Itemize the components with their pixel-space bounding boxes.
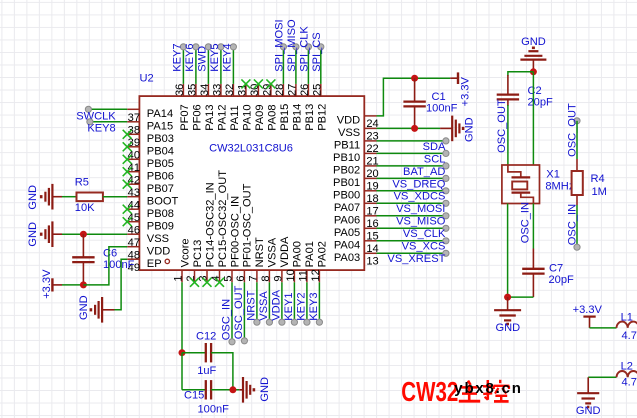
value 100nF C1	[426, 103, 458, 115]
svg-text:PA07: PA07	[334, 202, 360, 214]
label GND above C2	[521, 36, 546, 48]
svg-text:8: 8	[260, 275, 272, 281]
pin 41 PB05	[127, 158, 174, 174]
net label OSC_IN pin 5	[220, 299, 232, 340]
no-connect pin 40	[123, 142, 132, 151]
svg-text:PC15-OSC32_OUT: PC15-OSC32_OUT	[217, 170, 229, 268]
wire OSC_OUT pin 6	[241, 282, 247, 344]
pin 45 PB08	[127, 208, 174, 224]
svg-text:13: 13	[366, 256, 378, 268]
wire C15 right	[211, 389, 239, 391]
label +3.3V left	[41, 269, 53, 299]
svg-text:PB03: PB03	[147, 133, 174, 145]
pin 28 PB15	[274, 84, 291, 131]
junction VSS C6	[80, 231, 87, 238]
wire pin 23 VSS to ground	[377, 127, 441, 129]
wire +3.3V to pin 48 VDD	[83, 247, 127, 285]
net label SWCLK	[76, 110, 116, 122]
svg-text:11: 11	[298, 270, 310, 282]
wire VS_CLK	[377, 225, 450, 231]
svg-text:OSC_OUT: OSC_OUT	[233, 285, 245, 339]
svg-text:GND: GND	[576, 405, 601, 417]
svg-text:35: 35	[186, 84, 198, 96]
svg-text:100nF: 100nF	[426, 103, 458, 115]
svg-text:PB02: PB02	[333, 165, 360, 177]
svg-text:PB07: PB07	[147, 183, 174, 195]
svg-text:PA13: PA13	[204, 104, 216, 130]
wire C2 to crystal	[507, 99, 509, 165]
net label OSC_IN crystal	[520, 202, 532, 243]
ground GND at R5	[41, 184, 62, 210]
wire R4 to OSC_IN	[576, 195, 578, 247]
capacitor C1	[403, 78, 425, 128]
svg-text:R5: R5	[75, 177, 89, 189]
wire KEY2	[304, 282, 310, 325]
value 100nF C15	[198, 404, 230, 416]
no-connect pin 30	[254, 79, 263, 88]
value label CW32L031C8U6	[209, 142, 293, 154]
svg-text:PA08: PA08	[267, 104, 279, 130]
net label OSC_OUT R4	[566, 103, 578, 157]
wire VS_MISO	[377, 213, 450, 219]
svg-text:34: 34	[199, 84, 211, 96]
svg-text:VSS: VSS	[147, 233, 169, 245]
svg-text:GND: GND	[27, 185, 39, 210]
svg-text:PB10: PB10	[333, 152, 360, 164]
pin 27 PB14	[286, 84, 303, 131]
pin 11 PA01	[298, 241, 317, 282]
svg-text:U2: U2	[140, 73, 154, 85]
designator R5	[75, 177, 89, 189]
svg-text:VDD: VDD	[337, 115, 360, 127]
designator L1	[621, 311, 633, 323]
svg-text:PA11: PA11	[229, 105, 241, 131]
svg-text:NRST: NRST	[254, 237, 266, 267]
ground GND below C7	[494, 297, 521, 324]
svg-text:28: 28	[274, 84, 286, 96]
svg-text:KEY6: KEY6	[184, 43, 196, 71]
wire SCL	[377, 150, 450, 156]
pin 2 PC13	[185, 240, 204, 283]
ground GND above C2	[520, 48, 546, 72]
svg-text:BAT_AD: BAT_AD	[403, 166, 445, 178]
svg-text:PF01-OSC_OUT: PF01-OSC_OUT	[242, 183, 254, 267]
pin 39 PB03	[127, 133, 174, 149]
svg-text:VS_XREST: VS_XREST	[387, 253, 445, 265]
pin 21 PB10	[333, 152, 379, 167]
svg-text:PB09: PB09	[147, 221, 174, 233]
svg-text:VS_MOSI: VS_MOSI	[396, 203, 445, 215]
pin 10 PA00	[285, 241, 304, 282]
svg-text:10K: 10K	[75, 202, 95, 214]
pin 25 PB12	[311, 84, 328, 131]
net label KEY8	[87, 123, 115, 135]
wire VS_XCS	[377, 238, 450, 244]
designator U2	[140, 73, 154, 85]
svg-text:6: 6	[235, 275, 247, 281]
pin 13 PA03	[334, 252, 379, 267]
crystal X1	[502, 165, 540, 204]
net label KEY7	[172, 43, 184, 71]
junction Vcore C12	[179, 349, 186, 356]
wire VS_MOSI	[377, 200, 450, 206]
wire BAT_AD	[377, 163, 450, 169]
svg-text:SPI_MOSI: SPI_MOSI	[274, 19, 286, 71]
label GND at C1	[464, 117, 476, 142]
svg-text:PB15: PB15	[279, 104, 291, 131]
label +3.3V top right	[460, 76, 472, 106]
svg-text:36: 36	[174, 84, 186, 96]
pin 23 VSS	[338, 127, 379, 142]
svg-text:OSC_OUT: OSC_OUT	[496, 99, 508, 153]
wire SPI_MOSI	[280, 44, 286, 84]
svg-text:20pF: 20pF	[528, 97, 554, 109]
pin 46 PB09	[127, 221, 174, 237]
svg-text:SPI_CS: SPI_CS	[311, 32, 323, 71]
node OSC_OUT at R4	[574, 118, 580, 124]
svg-text:PA06: PA06	[334, 215, 360, 227]
title CW32 main control (red)	[401, 376, 509, 407]
value 1uF	[197, 365, 216, 377]
svg-text:VSSA: VSSA	[258, 291, 270, 321]
wire KEY8	[87, 119, 127, 125]
svg-text:PA01: PA01	[304, 241, 316, 267]
svg-text:100nF: 100nF	[103, 259, 135, 271]
inductor L1	[617, 322, 637, 328]
svg-text:KEY4: KEY4	[222, 43, 234, 71]
wire Vcore to C15	[182, 353, 206, 390]
wire SWD	[205, 44, 211, 84]
pin 18 PB00	[333, 190, 379, 205]
svg-text:GND: GND	[259, 377, 271, 402]
svg-text:33: 33	[211, 84, 223, 96]
svg-text:VS_CLK: VS_CLK	[403, 228, 446, 240]
ground GND at C1	[440, 116, 463, 142]
ground GND at L2	[577, 393, 599, 407]
pin 43 PB07	[127, 183, 174, 199]
svg-text:SWD: SWD	[197, 46, 209, 72]
svg-text:26: 26	[299, 84, 311, 96]
svg-text:KEY2: KEY2	[295, 292, 307, 320]
svg-text:R4: R4	[591, 173, 605, 185]
wire KEY1	[291, 282, 297, 325]
svg-text:PC14-OSC32_IN: PC14-OSC32_IN	[204, 182, 216, 267]
wire VS_XDCS	[377, 188, 450, 194]
svg-text:L2: L2	[621, 360, 633, 372]
svg-text:5: 5	[223, 275, 235, 281]
net label SCL	[424, 153, 446, 165]
junction C1 bottom	[411, 125, 418, 132]
pin 32 PA11	[224, 84, 241, 131]
net label KEY4	[222, 43, 234, 71]
svg-text:C6: C6	[103, 248, 117, 260]
wire SPI_CLK	[305, 44, 311, 84]
pin 7 NRST	[248, 237, 267, 282]
designator C1	[432, 91, 446, 103]
svg-text:C12: C12	[196, 331, 216, 343]
no-connect pin 46	[123, 217, 132, 226]
label GND below C7	[495, 322, 520, 334]
value 10K	[75, 202, 95, 214]
no-connect pin 41	[123, 155, 132, 164]
junction C1 top	[411, 75, 418, 82]
capacitor C15	[206, 380, 211, 399]
svg-text:PF07: PF07	[179, 104, 191, 131]
wire OSC_OUT to R4	[576, 121, 578, 171]
svg-text:8MHz: 8MHz	[545, 180, 574, 192]
designator C2	[528, 85, 542, 97]
svg-text:PB14: PB14	[292, 104, 304, 131]
wire NRST	[254, 282, 260, 325]
value 1M	[592, 186, 607, 198]
svg-text:VS_MISO: VS_MISO	[396, 216, 446, 228]
svg-text:PA10: PA10	[242, 104, 254, 130]
designator C6	[103, 248, 117, 260]
value 20pF C2	[528, 97, 554, 109]
pin 6 PF01-OSC_OUT	[235, 183, 254, 282]
svg-text:C15: C15	[184, 389, 204, 401]
pin 35 PF06	[186, 84, 203, 131]
value 4.7 L1	[622, 330, 637, 342]
svg-text:+3.3V: +3.3V	[573, 304, 603, 316]
wire +3.3V to L1	[590, 327, 617, 329]
svg-text:1uF: 1uF	[197, 365, 216, 377]
svg-text:VSSA: VSSA	[267, 237, 279, 267]
power +3.3V at L1	[573, 304, 603, 328]
wire pin 49 EP to ground	[115, 259, 128, 310]
svg-text:VS_DREQ: VS_DREQ	[392, 178, 445, 190]
pin 15 PA05	[334, 227, 379, 242]
wire crystal to C7	[532, 204, 534, 269]
pin 17 PA07	[334, 202, 379, 217]
svg-text:PA15: PA15	[147, 121, 173, 133]
net label KEY2	[295, 292, 307, 320]
net label SPI_MOSI	[274, 19, 286, 71]
svg-text:PF00-OSC_IN: PF00-OSC_IN	[229, 196, 241, 268]
label GND at VSS	[27, 222, 39, 247]
svg-text:L1: L1	[621, 311, 633, 323]
inductor L2	[617, 371, 637, 377]
wire SDA	[377, 138, 450, 144]
svg-text:BOOT: BOOT	[147, 196, 179, 208]
svg-text:GND: GND	[78, 295, 90, 320]
svg-text:4.7: 4.7	[622, 330, 637, 342]
pin 44 BOOT	[127, 196, 178, 212]
net label VSSA	[258, 291, 270, 321]
pin 20 PB02	[333, 165, 379, 180]
no-connect pin 31	[241, 79, 250, 88]
svg-text:X1: X1	[546, 169, 560, 181]
net label NRST	[245, 290, 257, 320]
EP pad marker	[165, 259, 169, 263]
ground GND at VSS	[41, 221, 62, 247]
net label VS_XDCS	[394, 191, 446, 203]
designator C12	[196, 331, 216, 343]
svg-text:GND: GND	[495, 322, 520, 334]
node OSC_IN at R4	[574, 244, 580, 250]
svg-text:VS_XCS: VS_XCS	[402, 241, 446, 253]
net label SPI_MISO	[286, 19, 298, 72]
pin 24 VDD	[337, 115, 379, 130]
pin 3 PC14-OSC32_IN	[198, 182, 217, 282]
pin 9 VDDA	[273, 236, 292, 282]
wire KEY3	[316, 282, 322, 325]
junction +3.3V C6	[80, 281, 87, 288]
wire KEY6	[193, 44, 199, 84]
svg-text:PB08: PB08	[147, 208, 174, 220]
svg-text:PB04: PB04	[147, 146, 174, 158]
svg-text:SPI_MISO: SPI_MISO	[286, 19, 298, 72]
pin 22 PB11	[334, 140, 379, 155]
wire pin 24 VDD to +3.3V	[377, 78, 451, 116]
pin 33 PA12	[211, 84, 228, 131]
svg-text:GND: GND	[464, 117, 476, 142]
svg-text:NRST: NRST	[245, 290, 257, 320]
wire VDDA	[279, 282, 285, 325]
svg-text:PB11: PB11	[334, 140, 360, 152]
pin 19 PB01	[333, 177, 379, 192]
wire SPI_CS	[318, 44, 324, 84]
pin 31 PA10	[236, 84, 253, 131]
svg-text:PA12: PA12	[217, 104, 229, 130]
svg-text:+3.3V: +3.3V	[41, 269, 53, 299]
wire GND to R5	[62, 196, 77, 198]
label GND at L2	[576, 405, 601, 417]
ground GND at EP	[91, 297, 115, 323]
watermark ybx8.cn	[454, 380, 522, 397]
svg-text:GND: GND	[521, 36, 546, 48]
junction C2 GND	[530, 68, 537, 75]
svg-text:OSC_IN: OSC_IN	[220, 299, 232, 340]
wire GND to pin 47 VSS	[62, 233, 127, 235]
pin 14 PA04	[334, 240, 379, 255]
wire VS_XREST	[377, 250, 450, 256]
svg-text:SPI_CLK: SPI_CLK	[299, 26, 311, 72]
designator X1	[546, 169, 560, 181]
wire pin 1 Vcore down	[181, 282, 183, 352]
svg-text:C2: C2	[528, 85, 542, 97]
value 4.7 L2	[622, 377, 637, 389]
wire OSC_IN pin 5	[229, 282, 235, 345]
junction C15 GND	[229, 386, 236, 393]
svg-text:PB01: PB01	[333, 177, 360, 189]
svg-text:12: 12	[310, 269, 322, 281]
IC U2 body CW32L031C8U6	[139, 96, 364, 270]
no-connect pin 43	[123, 180, 132, 189]
ground GND at C15	[239, 377, 254, 403]
net label KEY3	[308, 292, 320, 320]
wire +3.3V to junction	[62, 284, 83, 286]
resistor R4	[572, 171, 583, 195]
wire R5 to pin 44	[103, 196, 127, 198]
designator R4	[591, 173, 605, 185]
svg-text:PA14: PA14	[147, 108, 173, 120]
designator C15	[184, 389, 204, 401]
svg-text:32: 32	[224, 84, 236, 96]
svg-text:KEY8: KEY8	[87, 123, 115, 135]
svg-text:C1: C1	[432, 91, 446, 103]
net label BAT_AD	[403, 166, 445, 178]
pin 30 PA09	[249, 84, 266, 131]
net label SPI_CLK	[299, 26, 311, 72]
wire KEY5	[218, 44, 224, 84]
svg-text:C7: C7	[549, 263, 563, 275]
svg-text:PA03: PA03	[334, 252, 360, 264]
value 100nF C6	[103, 259, 135, 271]
capacitor C12	[206, 343, 211, 362]
power +3.3V top right	[450, 72, 458, 84]
net label KEY5	[209, 43, 221, 71]
capacitor C2	[497, 95, 519, 100]
pin 38 PA15	[127, 121, 173, 137]
net label VS_XREST	[387, 253, 445, 265]
svg-text:7: 7	[248, 275, 260, 281]
svg-text:PB06: PB06	[147, 171, 174, 183]
svg-text:+3.3V: +3.3V	[460, 76, 472, 106]
svg-text:KEY7: KEY7	[172, 43, 184, 71]
label GND at EP	[78, 295, 90, 320]
net label KEY1	[283, 292, 295, 320]
svg-text:PA04: PA04	[334, 240, 360, 252]
label GND at R5	[27, 185, 39, 210]
wire crystal left to GND	[507, 204, 509, 298]
no-connect pin 4	[215, 278, 224, 287]
capacitor C7	[522, 269, 544, 274]
svg-text:1M: 1M	[592, 186, 607, 198]
svg-text:100nF: 100nF	[198, 404, 230, 416]
value 8MHz	[545, 180, 574, 192]
pin 40 PB04	[127, 146, 174, 162]
net label OSC_OUT crystal	[496, 99, 508, 153]
no-connect pin 45	[123, 205, 132, 214]
svg-text:PA02: PA02	[317, 241, 329, 267]
net label OSC_OUT pin 6	[233, 285, 245, 339]
wire GND junction to C2	[508, 72, 534, 95]
svg-text:PA00: PA00	[292, 241, 304, 267]
wire L2 to GND	[588, 377, 616, 393]
net label SPI_CS	[311, 32, 323, 71]
svg-text:CW32L031C8U6: CW32L031C8U6	[209, 142, 293, 154]
pin 36 PF07	[174, 84, 191, 131]
svg-text:PA05: PA05	[334, 227, 360, 239]
pin 26 PB13	[299, 84, 316, 131]
net label VS_MOSI	[396, 203, 445, 215]
svg-text:ybx8.cn: ybx8.cn	[454, 380, 522, 397]
svg-text:27: 27	[286, 84, 298, 96]
net label VDDA	[270, 289, 282, 320]
svg-text:1: 1	[173, 275, 185, 281]
svg-text:PB13: PB13	[304, 104, 316, 131]
value 20pF C7	[549, 274, 575, 286]
pin 42 PB06	[127, 171, 174, 187]
no-connect pin 2	[190, 278, 199, 287]
wire SPI_MISO	[293, 44, 299, 84]
svg-text:20pF: 20pF	[549, 274, 575, 286]
svg-text:OSC_IN: OSC_IN	[520, 202, 532, 243]
designator L2	[621, 360, 633, 372]
wire KEY7	[180, 44, 186, 84]
svg-text:PC13: PC13	[192, 240, 204, 268]
no-connect pin 29	[266, 79, 275, 88]
net label SDA	[423, 141, 446, 153]
no-connect pin 3	[203, 278, 212, 287]
svg-text:VDDA: VDDA	[279, 236, 291, 267]
svg-text:EP: EP	[147, 258, 162, 270]
designator C7	[549, 263, 563, 275]
svg-text:OSC_IN: OSC_IN	[566, 204, 578, 245]
no-connect pin 42	[123, 167, 132, 176]
svg-text:VSS: VSS	[338, 127, 360, 139]
